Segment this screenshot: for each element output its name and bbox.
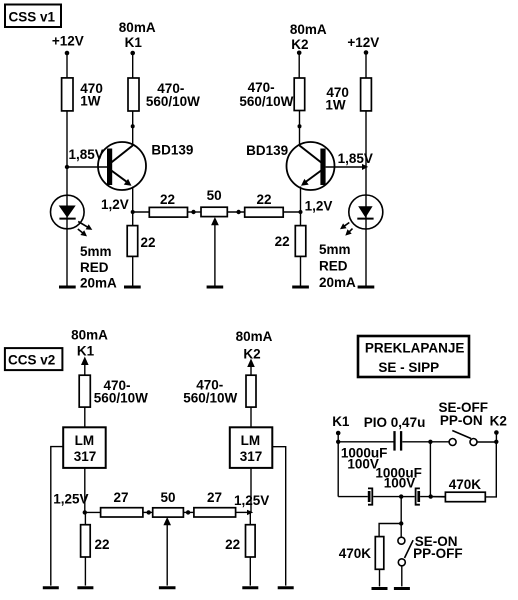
svg-text:22: 22 [275, 234, 290, 249]
svg-text:CSS v1: CSS v1 [9, 10, 56, 25]
label box CSS v1 [5, 5, 61, 28]
wire collector Q1 [132, 111, 134, 146]
svg-text:+12V: +12V [52, 34, 84, 49]
svg-text:560/10W: 560/10W [146, 94, 200, 109]
node K2 switch [490, 414, 507, 435]
ground left LED [59, 286, 76, 289]
svg-text:K2: K2 [291, 37, 308, 52]
wire emitter Q2 down [300, 187, 302, 213]
wire ADJ right [272, 447, 285, 586]
svg-text:RED: RED [80, 260, 109, 275]
node K2 top [290, 22, 327, 55]
svg-text:27: 27 [207, 490, 222, 505]
svg-text:20mA: 20mA [80, 275, 117, 290]
resistor 470K upper [445, 477, 485, 502]
svg-text:+12V: +12V [347, 35, 379, 50]
potentiometer 50 ccs [153, 490, 184, 586]
resistor 27 left [101, 490, 143, 517]
node right cap junction [429, 494, 433, 498]
node 1,2V left [101, 197, 135, 214]
wire resistor to LM317 left [84, 407, 86, 427]
resistor 470 1W right [325, 78, 371, 113]
node center rail junction [428, 440, 432, 444]
node +12V right [347, 35, 379, 55]
ground ADJ right [278, 586, 294, 589]
svg-text:1,25V: 1,25V [53, 491, 88, 506]
wire v22 ccs left bottom [84, 557, 86, 586]
node pot right [236, 210, 240, 214]
wire +12V right rail top [365, 53, 367, 79]
ground pot ccs [159, 586, 176, 589]
node K2 rail junction [494, 440, 498, 444]
node pot right ccs [186, 510, 190, 514]
wire K1 arrow to resistor [84, 364, 86, 375]
wire left rail to base node [66, 111, 68, 167]
svg-text:1,85V: 1,85V [338, 151, 373, 166]
switch SE-OFF PP-ON [439, 400, 497, 445]
transistor Q1 BD139 [98, 142, 193, 190]
svg-text:560/10W: 560/10W [239, 94, 293, 109]
svg-text:PP-ON: PP-ON [440, 413, 483, 428]
wire to pot left [188, 211, 202, 213]
wire v22 ccs right top [249, 512, 251, 524]
svg-text:317: 317 [240, 449, 263, 464]
svg-text:80mA: 80mA [71, 328, 108, 343]
svg-text:560/10W: 560/10W [94, 390, 148, 405]
svg-text:PREKLAPANJE: PREKLAPANJE [365, 340, 465, 355]
node +12V left [52, 34, 84, 56]
svg-text:K1: K1 [125, 35, 143, 50]
wire collector Q2 [299, 111, 301, 147]
resistor 22 horizontal left [149, 192, 187, 217]
wire pot to R22 right [227, 211, 244, 213]
regulator U1 LM317 left [63, 427, 105, 468]
wire 470K to cap node [431, 496, 446, 498]
wire K2 stub [495, 433, 497, 442]
wire K2 arrow to resistor [250, 366, 252, 375]
resistor 22 vertical left [127, 226, 155, 257]
svg-text:5mm: 5mm [80, 244, 112, 259]
node 1,85V right [338, 151, 373, 170]
resistor 22 vertical right [275, 226, 306, 257]
ground v22 ccs left [77, 586, 93, 589]
svg-text:22: 22 [160, 192, 175, 207]
wire center junction down [429, 442, 431, 497]
ground ADJ left [43, 586, 59, 589]
svg-text:100V: 100V [384, 476, 416, 491]
LED D1 left [51, 195, 93, 236]
svg-text:LM: LM [241, 433, 261, 448]
wire K1 branch down [337, 442, 339, 497]
switch SE-ON PP-OFF [398, 524, 463, 587]
resistor 22 horizontal right [245, 192, 284, 217]
wire pot to R27 right [183, 511, 194, 513]
node 1,25V left [53, 491, 88, 514]
resistor 470-560/10W right [239, 78, 304, 111]
svg-text:50: 50 [207, 188, 222, 203]
resistor 470-560/10W ccs left [79, 375, 148, 407]
ground v22 ccs right [242, 586, 258, 589]
node K1 switch [332, 414, 350, 435]
ground right emitter [292, 286, 309, 289]
node K1 rail junction [336, 440, 340, 444]
svg-text:K2: K2 [243, 346, 260, 361]
ground left emitter [124, 286, 141, 289]
svg-text:1W: 1W [325, 98, 346, 113]
wire K2 to resistor [298, 53, 300, 78]
node 1,85V left [65, 147, 104, 169]
node center cap junction [399, 494, 403, 498]
svg-text:317: 317 [74, 449, 97, 464]
svg-text:K2: K2 [490, 414, 507, 429]
svg-text:CCS v2: CCS v2 [8, 353, 55, 368]
capacitor C1 1000uF 100V [338, 446, 400, 505]
wire +12V right rail to ground [365, 111, 367, 286]
resistor 470 1W left [62, 78, 103, 111]
capacitor PIO 0,47u [338, 415, 449, 451]
wire node to R27 left [85, 511, 101, 513]
wire 470K lower to ground [379, 569, 381, 586]
potentiometer 50 top [201, 188, 227, 286]
wire LM317 output right [250, 468, 252, 513]
svg-text:5mm: 5mm [319, 242, 351, 257]
resistor 470-560/10W ccs right [183, 375, 256, 407]
wire base Q1 [67, 166, 107, 168]
wire v22 ccs right bottom [249, 557, 251, 586]
svg-text:470K: 470K [339, 546, 372, 561]
svg-text:22: 22 [256, 192, 271, 207]
regulator U2 LM317 right [230, 427, 272, 468]
wire left rail to LED [66, 167, 68, 286]
label box PREKLAPANJE SE - SIPP [358, 336, 469, 377]
resistor 470-560/10W left [128, 78, 200, 111]
svg-text:22: 22 [141, 235, 156, 250]
node K1 top [119, 20, 156, 55]
label box CCS v2 [5, 348, 63, 370]
ground SE-ON switch [394, 587, 410, 590]
resistor 27 right [194, 490, 236, 517]
svg-text:27: 27 [113, 490, 128, 505]
svg-text:PIO 0,47u: PIO 0,47u [364, 415, 426, 430]
svg-text:22: 22 [95, 537, 110, 552]
ground pot top [207, 286, 224, 289]
svg-text:22: 22 [225, 537, 240, 552]
ground right LED [358, 286, 375, 289]
wire resistor to LM317 right [250, 407, 252, 427]
svg-text:LM: LM [75, 433, 95, 448]
svg-text:50: 50 [160, 490, 175, 505]
wire R22 to emitter node right [283, 211, 300, 213]
wire base Q2 [326, 166, 366, 168]
wire +12V left rail top [66, 53, 68, 78]
wire K1 to resistor [132, 53, 134, 78]
svg-text:100V: 100V [347, 457, 379, 472]
node collector junction left [131, 124, 135, 128]
ground 470K lower [372, 587, 388, 590]
node K2 output [236, 329, 273, 367]
node pot left ccs [147, 510, 151, 514]
svg-text:K1: K1 [332, 414, 350, 429]
resistor 22 ccs left [81, 525, 110, 557]
svg-text:RED: RED [319, 259, 348, 274]
svg-text:470-: 470- [248, 80, 275, 95]
wire v22 left bottom [132, 256, 134, 285]
node lower junction [399, 521, 403, 525]
wire v22 ccs left top [84, 512, 86, 524]
svg-text:BD139: BD139 [151, 143, 193, 158]
node 1,25V right [234, 493, 269, 515]
wire v22 left top [132, 212, 134, 226]
svg-text:PP-OFF: PP-OFF [413, 546, 463, 561]
svg-text:20mA: 20mA [319, 275, 356, 290]
wire R27 to pot [143, 511, 153, 513]
node collector junction right [298, 124, 302, 128]
LED D2 right [340, 195, 383, 236]
wire to 470K vertical [379, 524, 401, 537]
wire emitter node to R22 horizontal [133, 211, 150, 213]
wire center node down [400, 497, 402, 524]
resistor 22 ccs right [225, 525, 255, 557]
node 1,2V right [299, 199, 333, 215]
node pot left [191, 210, 195, 214]
wire v22 right bottom [300, 256, 302, 285]
svg-text:1,2V: 1,2V [305, 199, 333, 214]
wire LM317 output left [84, 468, 86, 513]
svg-text:470K: 470K [449, 477, 482, 492]
wire K2 down to 470K [485, 442, 496, 497]
wire K1 stub [337, 433, 339, 442]
svg-text:80mA: 80mA [290, 22, 327, 37]
wire R27 to node right [236, 511, 251, 513]
label 5mm RED 20mA right [319, 242, 356, 290]
label 5mm RED 20mA left [80, 244, 117, 290]
capacitor C2 1000uF 100V [375, 466, 445, 505]
svg-text:1,2V: 1,2V [101, 197, 129, 212]
wire ADJ left [51, 447, 63, 586]
wire v22 right top [300, 212, 302, 226]
svg-text:BD139: BD139 [246, 143, 288, 158]
svg-text:SE - SIPP: SE - SIPP [378, 360, 439, 375]
svg-text:K1: K1 [77, 343, 95, 358]
svg-text:80mA: 80mA [119, 20, 156, 35]
svg-text:560/10W: 560/10W [183, 391, 237, 406]
wire emitter Q1 down [132, 187, 134, 213]
transistor Q2 BD139 [246, 142, 334, 190]
svg-text:1W: 1W [80, 93, 101, 108]
resistor 470K lower [339, 537, 384, 570]
svg-text:80mA: 80mA [236, 329, 273, 344]
node K1 output [71, 328, 108, 365]
